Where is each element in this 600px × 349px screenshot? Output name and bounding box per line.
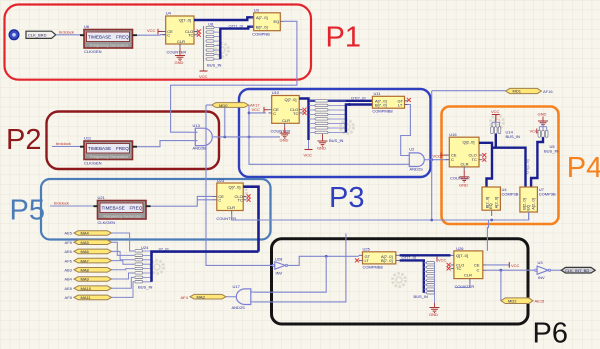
power VCC below U8: [199, 62, 208, 80]
svg-text:U3: U3: [254, 7, 260, 12]
svg-text:OT[7..0]: OT[7..0]: [402, 255, 416, 260]
svg-text:GND: GND: [538, 112, 547, 117]
svg-text:CLR: CLR: [177, 39, 185, 44]
svg-text:A[2..0]: A[2..0]: [530, 198, 535, 210]
bus-joiner U14: [491, 122, 520, 139]
svg-text:B[7..0]: B[7..0]: [256, 24, 268, 29]
svg-text:U16: U16: [449, 132, 457, 137]
svg-text:FREQ: FREQ: [130, 206, 143, 211]
wire AND lower input from riser: [254, 234, 346, 302]
ground under U4: [175, 47, 186, 65]
comparator U11: [372, 91, 407, 114]
svg-text:FREQ: FREQ: [116, 35, 129, 40]
svg-text:CLR: CLR: [227, 205, 235, 210]
svg-text:brdclock: brdclock: [59, 29, 74, 34]
and-gate U17 mirrored: [226, 284, 254, 310]
power VCC at U10.CE: [252, 107, 269, 113]
svg-text:VCC: VCC: [147, 28, 156, 33]
wire into U21: [50, 205, 98, 207]
svg-text:CLK_INT_BD: CLK_INT_BD: [565, 268, 589, 273]
port MA10: [74, 286, 112, 291]
svg-text:EQ: EQ: [274, 19, 280, 24]
power VCC at U16.CE: [433, 153, 448, 159]
svg-text:COMPMB8: COMPMB8: [363, 264, 384, 269]
comparator U25 mirrored: [359, 247, 400, 270]
power VCC at U4.CE: [147, 28, 166, 35]
junction at GT net: [325, 255, 328, 258]
svg-text:CLK/GEN: CLK/GEN: [98, 220, 116, 225]
bus U10.Q to U11.A: [299, 99, 372, 101]
inverter U28: [272, 256, 287, 275]
port MA5: [74, 240, 112, 245]
svg-text:P1: P1: [326, 22, 361, 54]
counter U16: [446, 132, 483, 170]
wire U28 out to U25.GT: [288, 256, 359, 265]
svg-text:COMPNB: COMPNB: [252, 31, 270, 36]
ground top right of P4: [538, 112, 549, 127]
port MA9: [74, 277, 112, 282]
svg-text:AND2S: AND2S: [410, 167, 424, 172]
svg-text:TC: TC: [188, 33, 193, 38]
no-connect X on U26.TC: [447, 266, 451, 270]
ground below U27: [429, 294, 440, 317]
frequency generator U6: [80, 24, 137, 54]
wire to MD1: [432, 90, 506, 92]
inverter U3: [535, 260, 551, 280]
wire MD0 port drop: [224, 107, 226, 137]
svg-text:U11: U11: [374, 91, 382, 96]
no-connect X on U11.GT: [407, 98, 411, 102]
junction reset at EQ left: [490, 219, 493, 222]
wire U26.CE to VCC: [487, 264, 510, 266]
wire U21.FREQ to U23: [151, 196, 212, 206]
no-connect X on U23.TC: [247, 198, 251, 202]
bus-joiner U27: [414, 262, 435, 299]
svg-text:CLR: CLR: [282, 118, 290, 123]
svg-text:Q[7..0]: Q[7..0]: [179, 18, 191, 23]
port MD1: [506, 88, 542, 93]
counter U23: [212, 178, 247, 215]
no-connect X on U25.LT: [355, 258, 359, 262]
svg-text:I[7..0]: I[7..0]: [159, 246, 169, 251]
wire U23.CLR long reset net: [232, 212, 529, 220]
svg-text:U11: U11: [84, 136, 92, 141]
wire GT net down to U17 and U26.CLR: [254, 256, 326, 292]
svg-text:COUNTER: COUNTER: [450, 176, 470, 181]
svg-text:A[7..0]: A[7..0]: [256, 15, 268, 20]
svg-text:U25: U25: [363, 247, 371, 252]
no-connect X on U16.TC: [482, 158, 486, 162]
svg-text:U6: U6: [84, 24, 90, 29]
port MA3: [190, 294, 226, 299]
svg-text:Frequency Generator: Frequency Generator: [104, 214, 143, 219]
region P1 frame: [5, 5, 312, 80]
svg-text:TC: TC: [456, 266, 461, 271]
no-connect X on U10.TC: [303, 111, 307, 115]
svg-text:AND2B: AND2B: [193, 145, 207, 150]
svg-text:BUS_IN: BUS_IN: [207, 63, 222, 68]
svg-text:P5: P5: [10, 195, 45, 227]
ground below U9 pins: [317, 134, 328, 151]
counter U26 mirrored: [451, 246, 487, 283]
svg-text:MA9: MA9: [81, 277, 90, 282]
junction on B bus: [348, 103, 351, 106]
no-connect X on U26.CLO: [447, 263, 451, 267]
svg-text:brdclock: brdclock: [56, 141, 71, 146]
wire MD0 left stub: [206, 104, 212, 106]
bus-joiner U5: [538, 127, 559, 154]
bus U25.A to U26.Q: [400, 254, 451, 256]
svg-text:AB3: AB3: [64, 268, 73, 273]
svg-text:U21: U21: [98, 195, 106, 200]
svg-text:EQ: EQ: [488, 203, 493, 209]
svg-text:VCC: VCC: [252, 107, 261, 112]
no-connect X on U23.CLO: [247, 194, 251, 198]
svg-text:COMP3B: COMP3B: [539, 191, 556, 196]
svg-text:AE15: AE15: [535, 299, 546, 304]
svg-text:AE8: AE8: [64, 286, 73, 291]
svg-text:P6: P6: [533, 318, 568, 349]
svg-text:MA6: MA6: [81, 249, 90, 254]
svg-text:GND: GND: [429, 312, 438, 317]
svg-text:MA10: MA10: [81, 286, 92, 291]
port MA6: [74, 249, 112, 254]
svg-text:U24: U24: [141, 245, 149, 250]
svg-text:U10: U10: [272, 90, 280, 95]
region P6 frame: [272, 239, 529, 324]
bus U25.B to bus-joiner: [400, 260, 424, 293]
svg-text:FREQ: FREQ: [116, 146, 129, 151]
bus U9 to U11.B: [346, 105, 373, 133]
svg-text:OT[2..0]: OT[2..0]: [524, 160, 529, 174]
power VCC below rail: [304, 140, 313, 157]
counter U10: [268, 90, 302, 126]
ground under U16: [459, 170, 469, 188]
svg-text:VCC: VCC: [199, 74, 208, 79]
svg-text:Frequency Generator: Frequency Generator: [90, 43, 129, 48]
svg-text:B[7..0]: B[7..0]: [375, 103, 387, 108]
svg-text:TC: TC: [472, 157, 477, 162]
bus U5 to comparator A: [531, 137, 543, 187]
wire U13 output net: [216, 136, 281, 138]
and-gate U13: [190, 123, 216, 150]
svg-text:BUS_IN: BUS_IN: [506, 134, 521, 139]
svg-text:CLK/GEN: CLK/GEN: [84, 49, 102, 54]
svg-text:C: C: [273, 111, 276, 116]
wire EQ branch into P6: [487, 220, 488, 251]
svg-text:INV: INV: [538, 275, 545, 280]
svg-text:GND: GND: [317, 146, 326, 151]
svg-text:VCC: VCC: [304, 152, 313, 157]
region P5 frame: [41, 179, 271, 240]
svg-text:C: C: [451, 157, 454, 162]
svg-text:brdclock: brdclock: [54, 200, 69, 205]
svg-text:U17: U17: [233, 284, 241, 289]
wire tap to U10.C: [249, 112, 266, 114]
svg-text:BUS_IN: BUS_IN: [329, 138, 344, 143]
power VCC small at U5: [530, 129, 539, 134]
svg-text:U13: U13: [193, 123, 201, 128]
svg-text:LT: LT: [365, 258, 370, 263]
wire MD0 clock riser to U28 input: [206, 105, 273, 265]
svg-text:C: C: [218, 198, 221, 203]
svg-text:CLK_BRD: CLK_BRD: [28, 33, 47, 38]
svg-text:CLR: CLR: [461, 161, 469, 166]
svg-text:MA7: MA7: [81, 258, 90, 263]
no-connect X on U10.CLO: [303, 108, 307, 112]
svg-text:CLR: CLR: [464, 273, 472, 278]
frequency generator U21: [94, 195, 151, 225]
svg-text:U23: U23: [217, 178, 225, 183]
port MA11: [74, 295, 112, 300]
svg-text:MA3: MA3: [197, 294, 206, 299]
svg-text:P4: P4: [567, 152, 600, 184]
junction reset at AND2S riser: [430, 219, 433, 222]
svg-text:U4: U4: [166, 11, 172, 16]
power VCC left of U26: [437, 257, 447, 263]
svg-text:TIMEBASE: TIMEBASE: [88, 146, 111, 151]
svg-text:U3: U3: [538, 260, 544, 265]
svg-text:CLK/GEN: CLK/GEN: [84, 161, 102, 166]
svg-text:COMP3B: COMP3B: [502, 191, 519, 196]
svg-text:MD2: MD2: [508, 299, 517, 304]
svg-text:COUNTER: COUNTER: [455, 284, 475, 289]
bus drop to bus-joiner rail: [307, 101, 309, 140]
comparator U4b COMP3B left: [482, 187, 519, 216]
bus-joiner U9: [309, 100, 346, 143]
wire port to U6: [56, 34, 84, 36]
svg-text:MA5: MA5: [81, 240, 90, 245]
svg-text:Q[2..0]: Q[2..0]: [463, 140, 475, 145]
svg-text:U26: U26: [456, 246, 464, 251]
port CLK_BRD: [26, 31, 56, 38]
bus U14 to comparator B inputs: [492, 134, 526, 187]
svg-text:LT: LT: [398, 103, 403, 108]
wire U26.CLR tail: [455, 283, 470, 288]
svg-text:AF4: AF4: [181, 295, 189, 300]
svg-text:MA11: MA11: [81, 295, 92, 300]
svg-text:Frequency Generator: Frequency Generator: [90, 154, 129, 159]
svg-text:VCC: VCC: [511, 263, 520, 268]
svg-text:GND: GND: [459, 183, 468, 188]
counter U4: [162, 11, 197, 48]
port MA8: [74, 268, 112, 273]
svg-text:Q[7..0]: Q[7..0]: [229, 185, 241, 190]
svg-text:VCC: VCC: [433, 153, 442, 158]
wire U3 out to CLK port: [551, 269, 562, 271]
bus I[7..0] from U24: [152, 252, 259, 282]
ground under U10: [280, 126, 290, 142]
junction U2 output: [430, 158, 433, 161]
no-connect X on U4.CLO: [197, 30, 201, 34]
svg-text:TC: TC: [293, 111, 298, 116]
svg-text:COMPMB8: COMPMB8: [372, 109, 393, 114]
port MD2: [501, 298, 533, 304]
svg-text:C: C: [477, 268, 480, 273]
wires ports to U24 pins: [112, 233, 135, 297]
bus-joiner U24: [135, 245, 153, 290]
power VCC at U26.CE: [509, 262, 519, 268]
region P4 frame: [442, 107, 559, 225]
wire U2 output to U16.C: [428, 159, 448, 161]
wire U3.EQ feedback loop to U13: [171, 21, 297, 132]
svg-text:Q[7..0]: Q[7..0]: [456, 253, 468, 258]
svg-text:AF6: AF6: [65, 258, 73, 263]
svg-text:U28: U28: [275, 256, 283, 261]
region P2 frame: [47, 112, 220, 170]
svg-text:TIMEBASE: TIMEBASE: [102, 206, 125, 211]
svg-text:VCC: VCC: [438, 257, 447, 262]
svg-text:P2: P2: [6, 124, 41, 156]
region P3 frame: [239, 89, 431, 177]
port MA4: [74, 231, 112, 236]
wire U26.C to U3: [487, 269, 535, 271]
svg-text:MD1: MD1: [513, 89, 522, 94]
svg-text:A[2..0]: A[2..0]: [494, 197, 499, 209]
svg-text:AE6: AE6: [64, 249, 73, 254]
wire MD0 net to AND2S lower input: [249, 105, 407, 164]
port MD0: [212, 103, 249, 108]
svg-text:AE5: AE5: [64, 231, 73, 236]
svg-text:AF8: AF8: [65, 295, 73, 300]
svg-text:MA8: MA8: [81, 268, 90, 273]
svg-text:AF16: AF16: [543, 89, 553, 94]
bus U23.Q down to I bus: [243, 187, 258, 252]
port CLK_INT_BD: [561, 267, 595, 273]
frequency generator U11: [80, 136, 137, 166]
bus U16.Q to comparator: [479, 143, 492, 187]
svg-text:Q[7..0]: Q[7..0]: [285, 97, 297, 102]
svg-text:B[7..0]: B[7..0]: [381, 258, 393, 263]
svg-text:CE: CE: [474, 262, 480, 267]
junction: [248, 136, 251, 139]
svg-text:COUNTER: COUNTER: [167, 49, 187, 54]
svg-text:INV: INV: [276, 271, 283, 276]
wire U11.FREQ to U13 lower input: [137, 141, 190, 147]
svg-text:C: C: [167, 33, 170, 38]
svg-text:TIMEBASE: TIMEBASE: [88, 35, 111, 40]
bus U4.Q to U3.A: [194, 17, 254, 20]
wire into U11: [52, 146, 84, 148]
svg-text:AB4: AB4: [64, 277, 73, 282]
comparator U3: [251, 7, 284, 36]
svg-text:EQ: EQ: [525, 205, 530, 211]
svg-text:OT[7..0]: OT[7..0]: [351, 96, 365, 101]
svg-text:AND2S: AND2S: [232, 305, 246, 310]
wire C net to MD2: [500, 270, 502, 301]
svg-text:TC: TC: [238, 198, 243, 203]
svg-text:MD0: MD0: [219, 103, 228, 108]
logo icon: [9, 30, 19, 40]
svg-text:GND: GND: [175, 60, 184, 65]
svg-text:U8: U8: [208, 21, 214, 26]
comparator U7 COMP3B right: [520, 187, 556, 220]
port MA7: [74, 258, 112, 263]
svg-text:U2: U2: [409, 147, 415, 152]
junction on MD0 net at C tap: [248, 112, 251, 115]
bus U8 to OT[7..0]: [220, 27, 253, 59]
svg-text:OT[7..0]: OT[7..0]: [229, 23, 243, 28]
svg-text:GND: GND: [280, 137, 289, 142]
power VCC top of P4: [491, 109, 500, 122]
svg-text:BUS_IN: BUS_IN: [414, 294, 429, 299]
svg-text:VCC: VCC: [491, 109, 500, 114]
junction C net: [500, 269, 503, 272]
wire U11.LT to AND2S upper input: [401, 105, 411, 156]
svg-text:P3: P3: [329, 182, 364, 214]
svg-text:BUS_IN: BUS_IN: [544, 149, 559, 154]
no-connect X on U4.TC: [197, 33, 201, 37]
no-connect X on U16.CLO: [482, 153, 486, 157]
bus-joiner U8: [204, 21, 222, 67]
and-gate U2: [407, 147, 428, 172]
junction: [223, 136, 226, 139]
wire U2 output riser to port MD1: [431, 91, 433, 220]
svg-text:AF5: AF5: [65, 240, 73, 245]
svg-text:MA4: MA4: [81, 231, 90, 236]
wire FREQ to U4: [137, 34, 166, 37]
svg-text:BUS_IN: BUS_IN: [138, 284, 153, 289]
